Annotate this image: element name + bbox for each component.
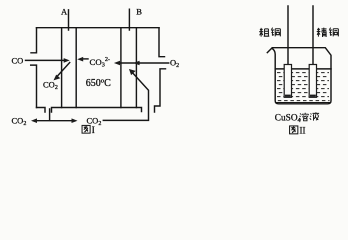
svg-text:II: II [300,126,306,136]
svg-text:CuSO4: CuSO4 [275,113,302,124]
svg-text:I: I [92,125,95,135]
svg-text:A: A [61,7,68,17]
svg-text:B: B [136,7,142,17]
svg-text:CO: CO [12,56,24,66]
svg-text:650oC: 650oC [86,78,111,89]
